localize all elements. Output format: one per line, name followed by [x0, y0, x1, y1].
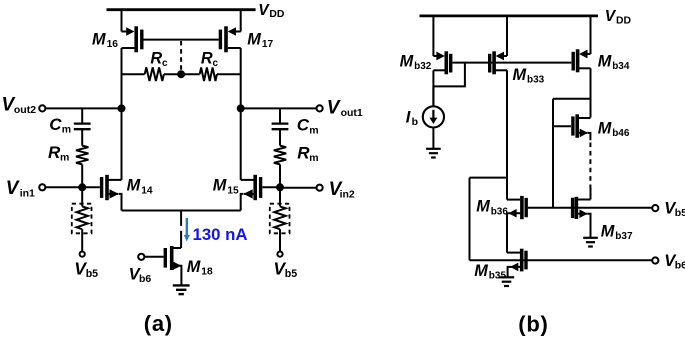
terminal Vb5 (b) [652, 205, 658, 211]
transistor Mb36 (NMOS) [507, 196, 526, 253]
svg-text:m: m [309, 152, 318, 164]
svg-text:b37: b37 [615, 231, 633, 242]
wire center to Rc right [181, 73, 200, 75]
terminal Vout2 [39, 105, 45, 111]
svg-text:M: M [92, 30, 106, 48]
resistor Rc (right) [200, 67, 217, 81]
capacitor Cm (right) [272, 122, 289, 124]
wire Vin1 node to pseudoresistor [81, 187, 83, 206]
svg-text:b6: b6 [675, 260, 685, 272]
transistor Mb37 (NMOS) [573, 188, 591, 237]
svg-text:DD: DD [616, 15, 632, 26]
svg-text:b36: b36 [491, 206, 509, 217]
wire tail [122, 210, 241, 212]
wire Vb6 line [470, 259, 653, 261]
terminal Vout1 [317, 105, 323, 111]
svg-text:b33: b33 [527, 75, 545, 86]
transistor M18 (NMOS) [165, 246, 181, 285]
svg-text:C: C [49, 115, 62, 134]
svg-text:in2: in2 [340, 188, 355, 200]
wire far-left vertical [469, 178, 471, 261]
svg-text:M: M [598, 119, 612, 137]
wire Mb32 drain to Ib [432, 86, 434, 106]
wire Cm to Rm (right) [279, 129, 281, 145]
terminal Vb5 (right) [277, 252, 282, 257]
svg-text:m: m [62, 123, 71, 135]
ground Mb35 [499, 276, 514, 278]
ground Ib [426, 148, 441, 150]
svg-text:M: M [598, 53, 612, 71]
power rail VDD (b) [420, 14, 599, 17]
resistor Rm (left) [76, 146, 88, 165]
svg-text:M: M [213, 177, 227, 195]
svg-text:b32: b32 [414, 61, 432, 72]
svg-text:b46: b46 [612, 128, 630, 139]
svg-text:M: M [400, 52, 414, 70]
wire Rc left to center [164, 73, 181, 75]
transistor Mb46 (NMOS) [553, 114, 591, 140]
svg-text:M: M [474, 262, 488, 280]
svg-text:M: M [601, 223, 615, 241]
node Vout1 [237, 104, 245, 112]
wire Vb6 to M18 gate [144, 256, 163, 258]
svg-text:V: V [258, 2, 270, 19]
svg-text:17: 17 [262, 39, 274, 50]
svg-text:b35: b35 [489, 271, 507, 282]
svg-text:b34: b34 [612, 61, 630, 72]
wire Vin1 node to M14 gate [82, 186, 100, 188]
wire M17 drain to M15 drain [240, 48, 242, 180]
svg-text:18: 18 [201, 267, 213, 278]
terminal Vb6 (b) [652, 257, 658, 263]
wire Mb34 drain to branch [553, 98, 591, 100]
wire Cm to Rm (left) [81, 129, 83, 145]
wire Mb34 drain down [590, 68, 592, 117]
terminal Vb5 (left) [80, 252, 85, 257]
terminal Vin2 [317, 185, 323, 191]
svg-text:C: C [297, 116, 310, 135]
wire Vout2 branch down [81, 108, 83, 123]
svg-text:14: 14 [141, 185, 153, 196]
transistor Mb34 (PMOS) [573, 16, 590, 72]
capacitor Cm (left) [74, 122, 91, 124]
wire gate bus (b) top [452, 62, 571, 64]
wire Rm to Vin2 node [279, 164, 281, 187]
wire Vout1 to node [241, 107, 317, 109]
svg-text:130 nA: 130 nA [193, 225, 248, 244]
wire Rc row left stub [122, 73, 145, 75]
svg-text:b: b [412, 116, 418, 128]
transistor Mb33 (PMOS) [490, 16, 507, 74]
wire M16 drain to M14 drain [121, 48, 123, 180]
current arrow 130 nA [186, 218, 188, 236]
svg-text:b5: b5 [675, 207, 685, 219]
svg-text:M: M [127, 177, 141, 195]
wire Vin2 to node [280, 187, 317, 189]
wire Rm to Vin1 node [81, 164, 83, 187]
pseudoresistor (left, dashed box) [72, 204, 92, 234]
wire branch vertical [552, 99, 554, 208]
wire Vb5 line [528, 207, 652, 209]
svg-text:(b): (b) [518, 312, 548, 337]
svg-text:R: R [150, 50, 162, 68]
ground M18 [173, 284, 190, 286]
svg-text:out1: out1 [341, 107, 363, 119]
node Rc center [177, 70, 185, 78]
wire dashed gate-to-Rc-center [180, 41, 182, 72]
transistor Mb32 (PMOS) [433, 16, 450, 107]
svg-text:I: I [406, 109, 411, 127]
svg-text:DD: DD [269, 9, 285, 20]
wire Mb33 drain down [506, 70, 508, 199]
node Vin2 [276, 183, 284, 191]
current source Ib [423, 106, 444, 127]
wire Vin2 node to M15 gate [262, 186, 280, 188]
svg-text:V: V [327, 98, 341, 119]
transistor Mb35 (NMOS) [507, 249, 526, 277]
svg-text:m: m [60, 152, 69, 164]
svg-text:16: 16 [107, 39, 119, 50]
ground Mb37 [583, 237, 598, 239]
svg-text:out2: out2 [14, 104, 36, 116]
svg-text:in1: in1 [20, 188, 35, 200]
svg-text:M: M [187, 258, 201, 276]
node Vout2 [118, 104, 126, 112]
wire dashed Mb46 source to Mb37 drain [589, 143, 591, 189]
wire Vout2 to node [45, 107, 121, 109]
transistor M14 (NMOS) [102, 175, 122, 211]
wire Rc row right stub [217, 73, 241, 75]
resistor Rm (right) [274, 146, 286, 165]
svg-text:(a): (a) [144, 311, 173, 336]
svg-text:M: M [476, 198, 490, 216]
wire Mb32 diode connection [433, 63, 465, 87]
wire pseudoresistor to Vb5 (left) [81, 229, 83, 251]
svg-text:b5: b5 [285, 268, 297, 280]
terminal Vb6 (a) [138, 254, 144, 260]
wire tail to M18 drain (broken) [180, 211, 182, 226]
svg-text:V: V [605, 8, 617, 25]
transistor M15 (NMOS) [241, 175, 261, 211]
svg-text:c: c [213, 58, 219, 69]
svg-text:m: m [309, 124, 318, 136]
svg-text:c: c [162, 58, 168, 69]
svg-text:R: R [201, 50, 213, 68]
terminal Vin1 [39, 184, 45, 190]
svg-text:b6: b6 [139, 273, 151, 285]
svg-text:15: 15 [227, 185, 239, 196]
transistor M16 (PMOS) [122, 10, 142, 53]
wire Vout1 branch down [279, 108, 281, 123]
svg-text:b5: b5 [86, 268, 98, 280]
wire Mb33 drain to far-left [470, 177, 508, 179]
transistor M17 (PMOS) [220, 10, 240, 53]
resistor Rc (left) [145, 67, 164, 81]
svg-text:V: V [6, 178, 20, 199]
wire Vin2 node to pseudoresistor [279, 187, 281, 206]
power rail VDD (a) [107, 8, 256, 11]
wire Ib to ground [432, 127, 434, 148]
wire pseudoresistor to Vb5 (right) [279, 229, 281, 251]
wire M16-M17 gate line [144, 39, 219, 41]
svg-text:M: M [513, 66, 527, 84]
pseudoresistor (right, dashed box) [270, 204, 290, 234]
wire Vin1 to node [45, 186, 82, 188]
node Vin1 [78, 183, 86, 191]
svg-text:M: M [247, 31, 261, 49]
